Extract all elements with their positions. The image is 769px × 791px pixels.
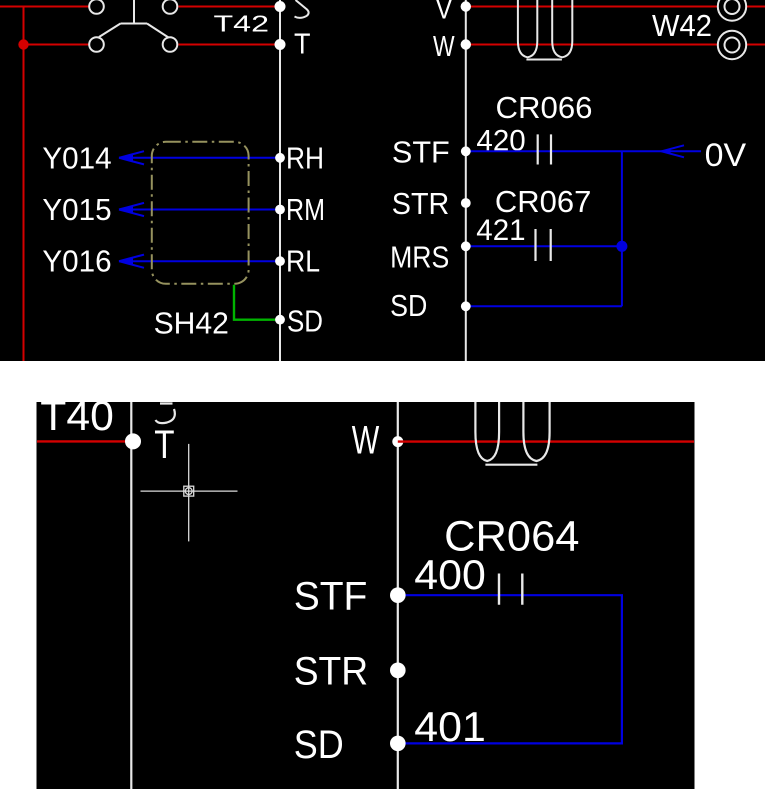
terminal lug upper (718, 0, 746, 59)
svg-text:T42: T42 (214, 11, 270, 37)
contact CR067 bars (536, 229, 551, 261)
partial letter S above T (156, 404, 175, 424)
screenshot 2 background (37, 402, 695, 789)
contact CR064 bars (499, 574, 522, 605)
wire: blue STF net 420 (466, 145, 701, 306)
wire: blue MRS net 421 (466, 245, 622, 247)
node dot T top (275, 1, 286, 12)
node dot T bottom (275, 39, 286, 50)
arrow whiskers RH (119, 151, 144, 164)
svg-text:SH42: SH42 (154, 306, 229, 341)
node dot STF (390, 587, 406, 603)
svg-text:Y014: Y014 (42, 140, 111, 175)
node dot RM (275, 205, 285, 215)
breaker actuator linkage (99, 0, 169, 38)
cursor pickbox (184, 486, 194, 496)
node dot V (461, 1, 471, 11)
svg-text:400: 400 (414, 551, 486, 598)
svg-text:T: T (154, 423, 174, 467)
node dot W (392, 436, 403, 447)
wire: red line W row right (466, 44, 765, 46)
svg-text:W42: W42 (652, 8, 712, 43)
cursor snap circle (185, 488, 192, 495)
svg-text:Y015: Y015 (42, 192, 111, 227)
arrowhead RM (119, 206, 133, 214)
node dot SD right (461, 301, 471, 311)
node dot W (461, 39, 471, 49)
motor choke symbol (475, 402, 549, 465)
node: red junction dot (18, 39, 28, 49)
svg-text:W: W (352, 419, 380, 463)
svg-text:CR066: CR066 (496, 90, 593, 125)
node dot MRS (461, 241, 471, 251)
svg-text:Y016: Y016 (42, 244, 111, 279)
svg-text:STR: STR (294, 650, 369, 694)
wire: green link to SD (234, 285, 280, 320)
node: blue junction dot (616, 241, 627, 252)
cursor crosshair (141, 444, 238, 542)
motor choke symbol (518, 0, 572, 60)
wire: white vertical line T (279, 0, 281, 361)
svg-text:RL: RL (286, 244, 320, 279)
wire: red bus top line left (0, 7, 765, 362)
wire: blue vertical return (621, 151, 623, 306)
wire: blue loop net 400 (398, 595, 622, 743)
svg-text:STF: STF (392, 135, 450, 170)
svg-text:W: W (433, 31, 455, 63)
contact CR066 bars (538, 134, 551, 164)
dash-dot group box SH42 (152, 142, 249, 284)
wire: red bus second line left (24, 44, 280, 46)
svg-text:SD: SD (390, 288, 427, 323)
arrow whiskers 0V (662, 145, 685, 157)
svg-text:STR: STR (392, 186, 450, 221)
node dot SD (390, 736, 406, 752)
wire: blue arrow RH (119, 151, 280, 268)
wire: red vertical feeder (23, 7, 25, 362)
svg-text:421: 421 (476, 214, 525, 247)
screenshot 1 background (0, 0, 765, 361)
svg-text:V: V (436, 0, 453, 26)
svg-text:RH: RH (286, 141, 324, 176)
svg-text:SD: SD (287, 304, 323, 339)
node dot SD left (275, 315, 285, 325)
arrowhead RL (119, 257, 133, 265)
svg-text:T40: T40 (40, 392, 114, 439)
svg-text:STF: STF (294, 575, 368, 619)
node dot STR (461, 198, 471, 208)
arrowhead RH (119, 154, 133, 162)
svg-text:SD: SD (294, 723, 344, 767)
node dot STR (390, 663, 406, 679)
node dot T40 (125, 433, 141, 449)
wire: blue SD net (466, 305, 622, 307)
partial letter S above T (295, 0, 309, 18)
terminal lug lower (718, 31, 746, 59)
wire: red line T40 row (37, 440, 133, 442)
svg-text:420: 420 (476, 125, 525, 158)
breaker QF contacts: 4 terminal circles (89, 0, 177, 52)
arrow whiskers RM (119, 203, 144, 216)
wire: red line V row right (466, 6, 765, 8)
svg-text:0V: 0V (705, 137, 747, 173)
arrowhead 0V (662, 149, 671, 154)
node dot RH (275, 153, 285, 163)
wire: blue arrow RM (119, 209, 280, 211)
wire: white vertical inverter line (465, 0, 467, 361)
wire: white vertical line T40 (130, 402, 132, 789)
wire: blue arrow RL (119, 260, 280, 262)
node dot STF (461, 146, 471, 156)
svg-text:T: T (294, 29, 311, 61)
node dot RL (275, 256, 285, 266)
wire: red line W row (398, 440, 694, 442)
svg-text:RM: RM (286, 192, 325, 227)
arrow whiskers RL (119, 255, 144, 268)
wire: white vertical inverter line (397, 402, 399, 789)
svg-text:MRS: MRS (390, 240, 449, 275)
